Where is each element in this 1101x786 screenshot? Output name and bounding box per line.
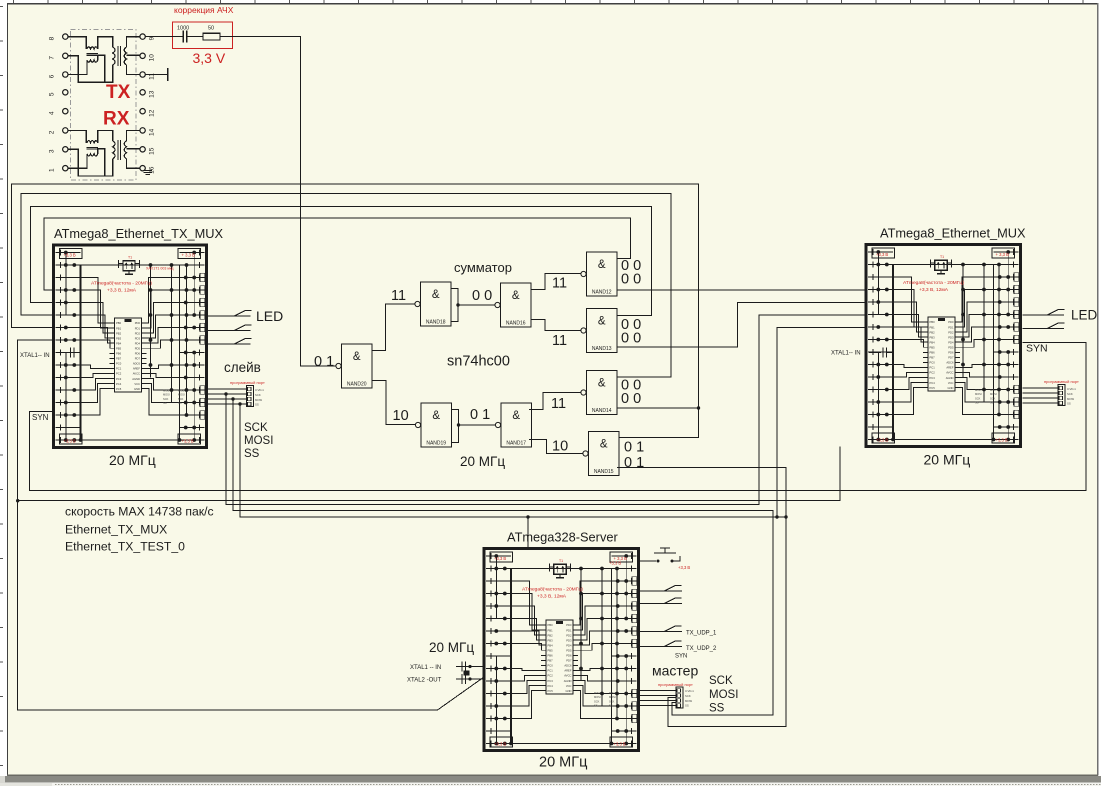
svg-text:&: & xyxy=(512,410,520,422)
svg-text:AVCC: AVCC xyxy=(133,372,140,376)
svg-text:NAND16: NAND16 xyxy=(506,321,526,327)
svg-text:3-VD-1: 3-VD-1 xyxy=(255,388,264,392)
svg-text:ADC6: ADC6 xyxy=(133,362,141,366)
svg-text:PD3: PD3 xyxy=(566,638,572,642)
svg-text:SCK: SCK xyxy=(1067,392,1073,396)
svg-text:PD0: PD0 xyxy=(135,321,141,325)
svg-text:PD6: PD6 xyxy=(566,654,572,658)
svg-text:SS: SS xyxy=(163,401,167,405)
svg-text:ATmega8(частота - 20МГц): ATmega8(частота - 20МГц) xyxy=(903,280,964,286)
svg-text:PB3: PB3 xyxy=(548,638,554,642)
svg-text:SYN: SYN xyxy=(675,654,687,660)
svg-text:MOSI: MOSI xyxy=(594,695,601,699)
svg-text:PB6: PB6 xyxy=(116,352,122,356)
svg-text:PC4: PC4 xyxy=(548,684,554,688)
svg-text:MOSI: MOSI xyxy=(1067,397,1074,401)
svg-text:3-VD-1: 3-VD-1 xyxy=(1067,387,1076,391)
svg-text:+3,3 В: +3,3 В xyxy=(494,556,506,561)
svg-text:MOSI: MOSI xyxy=(685,699,692,703)
svg-text:+3,3 В, 12мА: +3,3 В, 12мА xyxy=(537,594,567,600)
svg-text:20 МГц: 20 МГц xyxy=(539,755,587,771)
svg-text:11: 11 xyxy=(551,396,566,412)
svg-text:XTAL2 -OUT: XTAL2 -OUT xyxy=(407,678,442,684)
svg-text:0 1: 0 1 xyxy=(470,407,490,423)
svg-text:PC2: PC2 xyxy=(930,371,936,375)
svg-text:MISO: MISO xyxy=(594,691,601,695)
svg-text:0 1: 0 1 xyxy=(624,455,644,471)
svg-text:PD7: PD7 xyxy=(566,659,572,663)
svg-text:sn74hc00: sn74hc00 xyxy=(447,354,510,370)
svg-text:PB0: PB0 xyxy=(930,320,936,324)
svg-text:сумматор: сумматор xyxy=(454,260,512,275)
svg-text:3,3 V: 3,3 V xyxy=(193,50,226,66)
svg-text:SCK: SCK xyxy=(244,422,268,434)
svg-text:11: 11 xyxy=(391,288,406,304)
svg-text:5: 5 xyxy=(49,92,56,96)
svg-text:MOSI: MOSI xyxy=(990,392,997,396)
svg-text:VCC: VCC xyxy=(134,382,140,386)
svg-text:PB5: PB5 xyxy=(930,345,936,349)
svg-text:MOSI: MOSI xyxy=(609,695,616,699)
svg-text:PB1: PB1 xyxy=(930,325,936,329)
svg-text:MOSI: MOSI xyxy=(709,689,738,701)
svg-text:MOSI: MOSI xyxy=(244,435,273,447)
svg-text:15: 15 xyxy=(149,147,156,155)
svg-text:14: 14 xyxy=(149,128,156,136)
svg-text:MISO: MISO xyxy=(178,389,185,393)
svg-text:XTAL1-- IN: XTAL1-- IN xyxy=(20,353,50,359)
svg-text:AGND: AGND xyxy=(132,377,140,381)
svg-text:SS: SS xyxy=(609,704,613,708)
svg-text:коррекция АЧХ: коррекция АЧХ xyxy=(174,5,234,15)
svg-text:PD2: PD2 xyxy=(948,330,954,334)
svg-text:ХАХ1Т1 003 мкд: ХАХ1Т1 003 мкд xyxy=(146,267,174,271)
svg-text:PD4: PD4 xyxy=(566,643,572,647)
svg-text:PD4: PD4 xyxy=(135,341,141,345)
svg-text:PD0: PD0 xyxy=(948,320,954,324)
svg-text:SS: SS xyxy=(255,403,259,407)
svg-text:10: 10 xyxy=(552,439,568,455)
svg-text:+3,3 В: +3,3 В xyxy=(64,439,76,444)
svg-text:PD7: PD7 xyxy=(948,356,954,360)
svg-text:6: 6 xyxy=(49,74,56,78)
svg-text:20 МГц: 20 МГц xyxy=(109,452,156,468)
svg-text:PC5: PC5 xyxy=(548,689,554,693)
svg-text:PC1: PC1 xyxy=(930,366,936,370)
svg-text:+3,3 В: +3,3 В xyxy=(996,438,1008,443)
svg-text:PD4: PD4 xyxy=(948,340,954,344)
svg-text:0 0: 0 0 xyxy=(621,331,641,347)
svg-text:+3,3 В, 12мА: +3,3 В, 12мА xyxy=(919,287,949,293)
svg-text:VCC: VCC xyxy=(566,684,572,688)
svg-text:8: 8 xyxy=(49,36,56,40)
svg-text:PC2: PC2 xyxy=(548,674,554,678)
svg-text:PC0: PC0 xyxy=(116,362,122,366)
svg-text:AGND: AGND xyxy=(946,376,954,380)
svg-text:PB3: PB3 xyxy=(116,336,122,340)
svg-text:PD1: PD1 xyxy=(135,326,141,330)
svg-text:PC3: PC3 xyxy=(116,377,122,381)
svg-text:PD1: PD1 xyxy=(566,628,572,632)
svg-text:Ethernet_TX_MUX: Ethernet_TX_MUX xyxy=(65,523,167,537)
svg-text:13: 13 xyxy=(149,90,156,98)
svg-text:PD6: PD6 xyxy=(948,351,954,355)
svg-text:мастер: мастер xyxy=(652,663,698,679)
svg-text:ATmega8_Ethernet_MUX: ATmega8_Ethernet_MUX xyxy=(880,226,1026,241)
svg-text:PD5: PD5 xyxy=(135,346,141,350)
svg-text:SS: SS xyxy=(990,401,994,405)
svg-text:PC1: PC1 xyxy=(548,669,554,673)
svg-text:+3,3 В: +3,3 В xyxy=(609,561,621,566)
svg-text:VCC: VCC xyxy=(948,381,954,385)
svg-text:11: 11 xyxy=(552,276,567,292)
svg-text:ATmega8(частота - 20МГц): ATmega8(частота - 20МГц) xyxy=(91,281,152,287)
svg-text:AREF: AREF xyxy=(133,367,141,371)
svg-text:&: & xyxy=(512,290,520,302)
svg-text:программный порт: программный порт xyxy=(658,682,693,687)
svg-text:20 МГц: 20 МГц xyxy=(924,452,971,468)
svg-text:PB1: PB1 xyxy=(548,628,554,632)
svg-text:NAND12: NAND12 xyxy=(592,290,612,296)
svg-text:GND: GND xyxy=(566,689,572,693)
svg-text:7: 7 xyxy=(49,56,56,60)
svg-text:PC5: PC5 xyxy=(116,387,122,391)
svg-text:SS: SS xyxy=(178,401,182,405)
svg-text:SYN: SYN xyxy=(1026,343,1048,355)
svg-text:PC0: PC0 xyxy=(930,361,936,365)
svg-text:NAND17: NAND17 xyxy=(506,441,526,447)
svg-text:20 МГц: 20 МГц xyxy=(429,640,474,655)
svg-text:&: & xyxy=(598,316,606,328)
svg-text:программный порт: программный порт xyxy=(1044,379,1079,384)
svg-text:0 0: 0 0 xyxy=(472,288,492,304)
svg-text:PB2: PB2 xyxy=(116,331,122,335)
svg-text:TX_UDP_1: TX_UDP_1 xyxy=(686,631,717,637)
svg-text:+3,3 В: +3,3 В xyxy=(614,742,626,747)
svg-text:PB7: PB7 xyxy=(116,357,122,361)
svg-text:LED: LED xyxy=(256,308,283,324)
svg-text:0 0: 0 0 xyxy=(621,272,641,288)
svg-text:GND: GND xyxy=(134,387,140,391)
svg-text:+ 3,3 В: + 3,3 В xyxy=(996,252,1010,257)
svg-text:AVCC: AVCC xyxy=(946,371,953,375)
svg-text:3: 3 xyxy=(49,149,56,153)
svg-text:PB7: PB7 xyxy=(548,659,554,663)
svg-text:+3,3 В: +3,3 В xyxy=(876,438,888,443)
svg-text:NAND13: NAND13 xyxy=(592,346,612,352)
svg-text:SS: SS xyxy=(975,401,979,405)
svg-text:4: 4 xyxy=(49,111,56,115)
svg-text:PC2: PC2 xyxy=(116,372,122,376)
svg-text:MISO: MISO xyxy=(990,388,997,392)
svg-text:20 МГц: 20 МГц xyxy=(460,454,505,469)
svg-text:3-VD-1: 3-VD-1 xyxy=(685,689,694,693)
svg-text:MOSI: MOSI xyxy=(255,398,262,402)
svg-text:10: 10 xyxy=(149,54,156,62)
svg-text:SS: SS xyxy=(685,704,689,708)
svg-text:11: 11 xyxy=(149,73,156,80)
svg-text:TX: TX xyxy=(106,82,131,103)
svg-text:PB4: PB4 xyxy=(548,643,554,647)
svg-text:PC4: PC4 xyxy=(930,381,936,385)
svg-text:MISO: MISO xyxy=(163,389,170,393)
svg-text:SS: SS xyxy=(244,448,260,460)
svg-text:ATmega328-Server: ATmega328-Server xyxy=(507,530,618,545)
svg-text:&: & xyxy=(598,259,606,271)
svg-text:SCK: SCK xyxy=(594,699,600,703)
svg-text:XTAL1-- IN: XTAL1-- IN xyxy=(831,351,861,357)
svg-text:PC4: PC4 xyxy=(116,382,122,386)
svg-text:+3,3 В: +3,3 В xyxy=(64,253,76,258)
svg-text:LED: LED xyxy=(1071,308,1098,323)
svg-text:PC5: PC5 xyxy=(930,386,936,390)
svg-text:PB0: PB0 xyxy=(116,321,122,325)
svg-text:NAND18: NAND18 xyxy=(426,320,446,326)
svg-text:SCK: SCK xyxy=(609,699,615,703)
svg-text:RX: RX xyxy=(103,109,130,130)
svg-text:50: 50 xyxy=(208,26,214,32)
svg-text:PD0: PD0 xyxy=(566,623,572,627)
svg-text:SS: SS xyxy=(594,704,598,708)
svg-text:ATmega8(частота - 20МГц): ATmega8(частота - 20МГц) xyxy=(522,587,583,593)
svg-text:10: 10 xyxy=(393,408,409,424)
svg-text:ADC6: ADC6 xyxy=(564,664,572,668)
svg-text:NAND14: NAND14 xyxy=(592,408,612,414)
svg-text:AREF: AREF xyxy=(946,366,954,370)
svg-text:MISO: MISO xyxy=(975,388,982,392)
svg-text:+3,3 В, 12мА: +3,3 В, 12мА xyxy=(107,288,137,294)
svg-text:&: & xyxy=(432,289,440,301)
svg-text:PD6: PD6 xyxy=(135,352,141,356)
svg-text:Ethernet_TX_TEST_0: Ethernet_TX_TEST_0 xyxy=(65,540,185,554)
svg-text:12: 12 xyxy=(149,109,156,117)
svg-text:PB0: PB0 xyxy=(548,623,554,627)
svg-text:GND: GND xyxy=(948,386,954,390)
svg-text:MOSI: MOSI xyxy=(975,392,982,396)
svg-text:PD2: PD2 xyxy=(135,331,141,335)
svg-text:&: & xyxy=(353,351,361,363)
svg-text:NAND15: NAND15 xyxy=(594,469,614,475)
svg-text:MOSI: MOSI xyxy=(178,393,185,397)
svg-text:PC3: PC3 xyxy=(548,679,554,683)
svg-text:+3,3 В: +3,3 В xyxy=(876,252,888,257)
svg-text:XTAL1 -- IN: XTAL1 -- IN xyxy=(410,665,441,671)
svg-text:PB4: PB4 xyxy=(116,341,122,345)
svg-text:0 1: 0 1 xyxy=(314,354,334,370)
svg-text:PB5: PB5 xyxy=(116,346,122,350)
svg-text:PB5: PB5 xyxy=(548,648,554,652)
svg-text:AGND: AGND xyxy=(564,679,572,683)
svg-text:0 1: 0 1 xyxy=(624,440,644,456)
svg-text:SYN: SYN xyxy=(32,413,49,422)
svg-text:PD5: PD5 xyxy=(948,345,954,349)
svg-text:SCK: SCK xyxy=(178,397,184,401)
svg-text:PD2: PD2 xyxy=(566,633,572,637)
svg-text:0 0: 0 0 xyxy=(621,391,641,407)
svg-text:SCK: SCK xyxy=(990,396,996,400)
svg-text:Т1: Т1 xyxy=(128,255,132,259)
svg-text:PC0: PC0 xyxy=(548,664,554,668)
svg-text:PB2: PB2 xyxy=(548,633,554,637)
svg-text:NAND20: NAND20 xyxy=(347,382,367,388)
svg-text:ADC6: ADC6 xyxy=(946,361,954,365)
svg-text:PD3: PD3 xyxy=(948,335,954,339)
svg-text:SCK: SCK xyxy=(685,694,691,698)
svg-text:PB1: PB1 xyxy=(116,326,122,330)
svg-text:PC1: PC1 xyxy=(116,367,122,371)
svg-text:SCK: SCK xyxy=(709,675,733,687)
svg-text:TX_UDP_2: TX_UDP_2 xyxy=(686,646,717,652)
svg-text:PD3: PD3 xyxy=(135,336,141,340)
svg-text:+ 3,3 В: + 3,3 В xyxy=(182,253,196,258)
svg-text:SS: SS xyxy=(709,703,725,715)
svg-text:&: & xyxy=(432,410,440,422)
svg-text:&: & xyxy=(600,439,608,451)
svg-text:AREF: AREF xyxy=(564,669,572,673)
svg-text:PB4: PB4 xyxy=(930,340,936,344)
svg-text:NAND19: NAND19 xyxy=(426,441,446,447)
svg-text:PB2: PB2 xyxy=(930,330,936,334)
svg-text:SCK: SCK xyxy=(975,396,981,400)
svg-text:PC3: PC3 xyxy=(930,376,936,380)
svg-text:ATmega8_Ethernet_TX_MUX: ATmega8_Ethernet_TX_MUX xyxy=(54,226,224,241)
svg-text:MOSI: MOSI xyxy=(163,393,170,397)
svg-text:2: 2 xyxy=(49,130,56,134)
svg-text:+3,3 В: +3,3 В xyxy=(182,439,194,444)
svg-text:MISO: MISO xyxy=(609,691,616,695)
svg-text:PD5: PD5 xyxy=(566,648,572,652)
svg-text:программный порт: программный порт xyxy=(230,380,265,385)
svg-text:слейв: слейв xyxy=(224,360,261,375)
svg-text:PB6: PB6 xyxy=(930,351,936,355)
svg-text:PD1: PD1 xyxy=(948,325,954,329)
svg-text:SS: SS xyxy=(1067,402,1071,406)
svg-text:PB6: PB6 xyxy=(548,654,554,658)
svg-text:1: 1 xyxy=(49,168,56,172)
svg-text:+3,3 В: +3,3 В xyxy=(494,742,506,747)
svg-text:+3,3 В: +3,3 В xyxy=(678,565,690,570)
svg-text:PD7: PD7 xyxy=(135,357,141,361)
svg-text:скорость MAX 14738 пак/с: скорость MAX 14738 пак/с xyxy=(65,505,214,519)
svg-text:PB3: PB3 xyxy=(930,335,936,339)
svg-text:11: 11 xyxy=(552,333,567,349)
svg-text:Т1: Т1 xyxy=(940,255,944,259)
svg-text:&: & xyxy=(598,378,606,390)
svg-text:SCK: SCK xyxy=(255,393,261,397)
svg-text:SCK: SCK xyxy=(163,397,169,401)
svg-text:Т1: Т1 xyxy=(559,559,563,563)
svg-text:PB7: PB7 xyxy=(930,356,936,360)
svg-text:AVCC: AVCC xyxy=(564,674,571,678)
